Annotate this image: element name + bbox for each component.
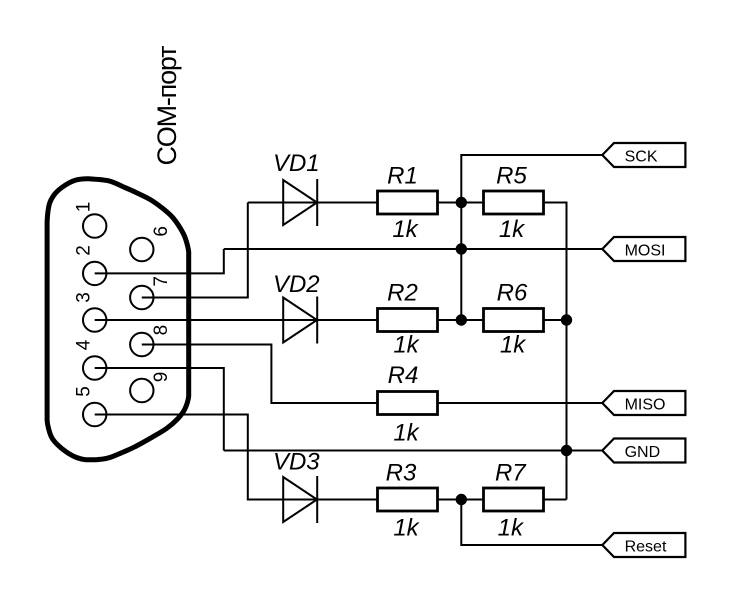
flag Reset: [602, 533, 685, 557]
pin 8: [130, 333, 153, 356]
svg-text:R1: R1: [387, 163, 418, 190]
svg-text:4: 4: [73, 339, 94, 350]
wire pin7 to VD1 row: [142, 203, 248, 298]
svg-text:8: 8: [151, 325, 172, 336]
svg-text:1k: 1k: [500, 332, 527, 359]
svg-text:3: 3: [73, 292, 94, 303]
wire R6 right to vertical B: [544, 319, 567, 321]
resistor R7: [484, 460, 544, 542]
wire pin8 to R4 row: [142, 345, 378, 404]
resistor R6: [484, 280, 544, 359]
pin 1: [83, 214, 106, 237]
diode VD1: [273, 150, 320, 226]
svg-text:R3: R3: [386, 460, 417, 487]
flag GND: [602, 439, 685, 463]
resistor R2: [378, 280, 438, 359]
wire VD1 row: [248, 202, 378, 204]
node GND junction: [561, 445, 572, 456]
resistor R3: [378, 460, 438, 542]
wire pin4 to GND line: [95, 368, 224, 451]
svg-text:COM-порт: COM-порт: [152, 46, 182, 166]
svg-text:2: 2: [73, 245, 94, 256]
svg-text:1k: 1k: [499, 216, 526, 243]
diode VD2: [273, 271, 320, 344]
wire MOSI line: [224, 248, 603, 250]
pin 9: [130, 379, 153, 402]
svg-text:SCK: SCK: [625, 148, 658, 165]
wire R4 to MISO flag: [438, 402, 603, 404]
wire VD3 row: [283, 499, 377, 501]
pin 5: [83, 403, 106, 426]
wire Reset branch: [461, 500, 602, 546]
svg-text:R4: R4: [388, 362, 419, 389]
node MOSI junction: [456, 243, 467, 254]
wire pin3 to VD2: [95, 319, 284, 321]
node R2-R6 junction: [456, 314, 467, 325]
svg-text:7: 7: [151, 276, 172, 287]
svg-text:VD2: VD2: [273, 271, 320, 298]
wire R5 right to vertical B: [544, 203, 567, 500]
wire R3 to R7: [438, 499, 484, 501]
wire node A vertical with SCK branch: [461, 155, 602, 320]
wire R2 to R6: [438, 319, 484, 321]
svg-text:MOSI: MOSI: [625, 242, 666, 259]
svg-text:VD3: VD3: [273, 449, 320, 476]
svg-text:1k: 1k: [393, 420, 420, 447]
diode VD3: [273, 449, 320, 524]
flag MISO: [602, 391, 685, 415]
svg-text:1k: 1k: [498, 515, 525, 542]
resistor R1: [378, 163, 438, 244]
connector J1 COM-port outline: [47, 179, 189, 460]
wire VD2 row: [283, 319, 377, 321]
wire pin2 to MOSI line: [95, 249, 224, 273]
svg-text:1k: 1k: [393, 332, 420, 359]
svg-text:1k: 1k: [392, 216, 419, 243]
pin 2: [83, 262, 106, 285]
svg-text:1k: 1k: [393, 515, 420, 542]
svg-text:9: 9: [151, 372, 172, 383]
svg-text:1: 1: [73, 202, 94, 213]
svg-text:MISO: MISO: [625, 396, 666, 413]
resistor R4: [378, 362, 438, 447]
svg-text:R6: R6: [497, 280, 528, 307]
pin 4: [83, 356, 106, 379]
node R6 right junction: [561, 314, 572, 325]
node R1-R5 junction: [456, 197, 467, 208]
wire R1 to R5 through node: [438, 202, 484, 204]
svg-text:R7: R7: [495, 460, 527, 487]
flag MOSI: [602, 237, 685, 261]
svg-text:GND: GND: [625, 444, 661, 461]
svg-text:6: 6: [151, 226, 172, 237]
svg-text:5: 5: [73, 386, 94, 397]
pin 3: [83, 308, 106, 331]
resistor R5: [484, 163, 544, 244]
wire pin5 to VD3 row: [95, 415, 284, 500]
pin 6: [130, 238, 153, 261]
pin 7: [130, 286, 153, 309]
wire R7 right up to GND: [544, 499, 567, 501]
svg-text:R5: R5: [496, 163, 527, 190]
svg-text:Reset: Reset: [625, 538, 667, 555]
svg-text:R2: R2: [387, 280, 418, 307]
flag SCK: [602, 143, 685, 167]
wire GND line: [224, 450, 603, 452]
node R3-R7 junction: [456, 494, 467, 505]
svg-text:VD1: VD1: [273, 150, 320, 177]
